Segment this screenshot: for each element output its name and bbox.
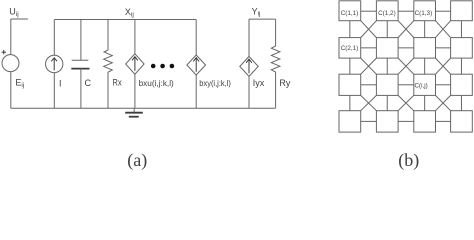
caption (a) (127, 150, 147, 171)
svg-text:C: C (85, 78, 92, 88)
svg-text:C(1,2): C(1,2) (378, 10, 396, 17)
svg-text:C(1,3): C(1,3) (415, 10, 433, 17)
wire: link col 1 row 1-2 (349, 21, 351, 38)
value label bxu(i,j:k,l) (139, 78, 174, 88)
wire: I branch top (53, 20, 55, 56)
wire: diagonal links rows 1-2 cols 1-2 (361, 21, 377, 38)
svg-text:I: I (59, 78, 62, 88)
wire: diagonal links rows 2-3 cols 2-3 (398, 58, 414, 74)
svg-text:(a): (a) (127, 150, 147, 171)
cell box row 3 col 1 (339, 74, 361, 95)
cell box row 1 col 4 (451, 1, 473, 21)
svg-text:C(1,1): C(1,1) (341, 10, 359, 17)
wire: link col 2 row 2-3 (386, 58, 388, 74)
wire: top rail node Xij (54, 19, 196, 21)
capacitor C (71, 60, 89, 68)
cell box row 4 col 2 (376, 111, 398, 132)
svg-text:Iyx: Iyx (253, 78, 265, 88)
node Uij label (9, 7, 18, 18)
cell box C(1,3) (414, 1, 436, 21)
wire: link col 3 row 3-4 (424, 95, 426, 110)
wire: Rx branch top (107, 20, 109, 51)
wire: Iyx branch top (248, 19, 250, 56)
wire: diagonal links rows 3-4 cols 1-2 (361, 95, 377, 110)
value label C (85, 78, 92, 88)
wire: bxu branch top (134, 20, 136, 54)
node Yij label (252, 6, 261, 17)
svg-text:bxy(i,j:k,l): bxy(i,j:k,l) (199, 78, 231, 88)
value label bxy(i,j:k,l) (199, 78, 231, 88)
wire: link row 2 col 3-4 (436, 47, 451, 49)
caption (b) (398, 150, 419, 171)
wire: diagonal links rows 2-3 cols 3-4 (436, 58, 451, 74)
cell box row 3 col 2 (376, 74, 398, 95)
svg-text:Ry: Ry (279, 78, 290, 88)
value label Eij (15, 78, 24, 89)
svg-text:Eij: Eij (15, 78, 24, 89)
cell box row 3 col 4 (451, 74, 473, 95)
wire: link row 1 col 1-2 (361, 10, 377, 12)
wire: I branch bottom (53, 73, 55, 109)
wire: link col 4 row 1-2 (460, 21, 462, 38)
cell box row 4 col 1 (339, 111, 361, 132)
wire: Iyx branch bottom (248, 76, 250, 108)
wire: link row 2 col 2-3 (398, 47, 414, 49)
wire: bottom rail (11, 107, 276, 109)
cell box C(i,j) (414, 74, 436, 95)
wire: link col 3 row 1-2 (424, 21, 426, 38)
svg-text:C(2,1): C(2,1) (341, 45, 359, 52)
wire: link col 1 row 3-4 (349, 95, 351, 110)
ellipsis dots (repeated sources) (151, 64, 174, 69)
resistor Ry (271, 46, 280, 74)
node Xij label (125, 7, 134, 18)
wire: link row 4 col 2-3 (398, 120, 414, 122)
svg-text:Yij: Yij (252, 6, 261, 17)
cell box row 4 col 3 (414, 111, 436, 132)
cell box C(2,1) (339, 38, 361, 59)
cell box C(1,1) (339, 1, 361, 21)
svg-text:(b): (b) (398, 150, 419, 171)
value label Ry (279, 78, 290, 88)
wire: diagonal links rows 1-2 cols 3-4 (436, 21, 451, 38)
wire: link row 3 col 1-2 (361, 84, 377, 86)
value label Rx (112, 78, 122, 88)
cell box row 2 col 3 (414, 38, 436, 59)
wire: Rx branch bottom (107, 75, 109, 109)
wire: diagonal links rows 3-4 cols 2-3 (398, 95, 414, 110)
wire: link col 2 row 1-2 (386, 21, 388, 38)
svg-text:C(i,j): C(i,j) (415, 82, 428, 89)
cell box row 4 col 4 (451, 111, 473, 132)
wire: diagonal links rows 3-4 cols 3-4 (436, 95, 451, 110)
wire: link row 1 col 3-4 (436, 10, 451, 12)
svg-text:Uij: Uij (9, 7, 18, 18)
voltage source Eij polarity + (2, 50, 7, 54)
wire: link col 4 row 3-4 (460, 95, 462, 110)
wire: link col 2 row 3-4 (386, 95, 388, 110)
wire: link row 3 col 3-4 (436, 84, 451, 86)
wire: diagonal links rows 2-3 cols 1-2 (361, 58, 377, 74)
wire: link row 1 col 2-3 (398, 10, 414, 12)
wire: link col 1 row 2-3 (349, 58, 351, 74)
cell box row 2 col 2 (376, 38, 398, 59)
cell box C(1,2) (376, 1, 398, 21)
wire: bxy branch bottom (195, 75, 197, 108)
wire: C branch top (80, 20, 82, 61)
wire: Ry branch bottom (275, 74, 277, 108)
wire: Eij to bottom rail (10, 72, 12, 109)
wire: bxu branch bottom (134, 74, 136, 108)
svg-text:Rx: Rx (112, 78, 122, 88)
wire: link row 4 col 3-4 (436, 120, 451, 122)
wire: Uij input stub (11, 19, 28, 55)
svg-text:bxu(i,j:k,l): bxu(i,j:k,l) (139, 78, 174, 88)
cell box row 2 col 4 (451, 38, 473, 59)
svg-text:Xij: Xij (125, 7, 134, 18)
wire: diagonal links rows 1-2 cols 2-3 (398, 21, 414, 38)
wire: link row 2 col 1-2 (361, 47, 377, 49)
wire: link row 4 col 1-2 (361, 120, 377, 122)
dependent current source bxy(i,j:k,l) (187, 55, 206, 75)
wire: top rail node Yij (249, 18, 276, 20)
current source I (46, 55, 63, 72)
wire: bxy branch top (195, 20, 197, 56)
value label Iyx (253, 78, 265, 88)
wire: C branch bottom (80, 69, 82, 109)
dependent current source Iyx (240, 56, 258, 76)
value label I (59, 78, 62, 88)
wire: Ry branch top (275, 19, 277, 46)
voltage source Eij (2, 55, 19, 72)
dependent current source bxu(i,j:k,l) (126, 54, 144, 74)
wire: link col 4 row 2-3 (460, 58, 462, 74)
resistor Rx (104, 50, 113, 75)
wire: link col 3 row 2-3 (424, 58, 426, 74)
ground (125, 108, 143, 116)
wire: link row 3 col 2-3 (398, 84, 414, 86)
